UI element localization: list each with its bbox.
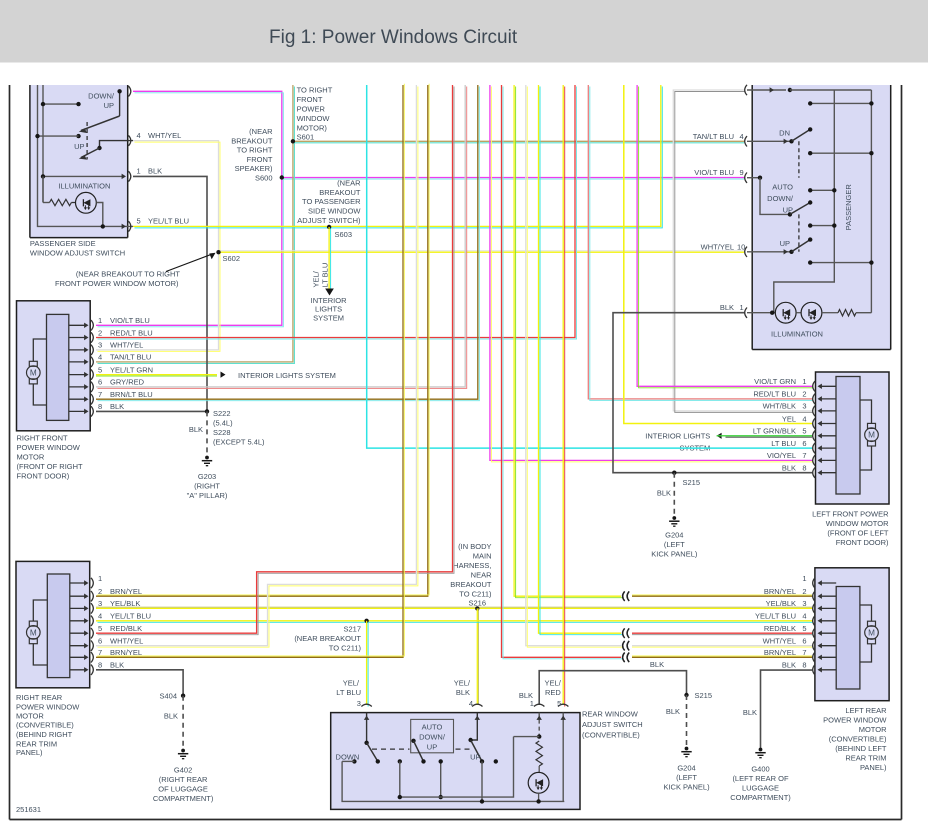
svg-text:BREAKOUT: BREAKOUT — [450, 580, 492, 589]
svg-text:LT BLU: LT BLU — [771, 439, 796, 448]
svg-text:8: 8 — [98, 661, 102, 670]
svg-text:4: 4 — [740, 132, 744, 141]
svg-text:RIGHT REAR: RIGHT REAR — [16, 693, 63, 702]
svg-text:WINDOW: WINDOW — [297, 114, 331, 123]
wire BRN/YEL: connector to LR motor pin2 — [632, 595, 812, 597]
switch SW3 AUTO switch arm — [411, 739, 415, 743]
switch SW2 illumination LED D3 — [801, 302, 822, 323]
svg-text:REAR WINDOW: REAR WINDOW — [582, 710, 639, 719]
wire YEL/BLK branch S216 down to rear switch pin4 — [476, 608, 478, 705]
svg-text:MOTOR: MOTOR — [859, 725, 887, 734]
svg-text:NEAR: NEAR — [471, 571, 492, 580]
switch SW3 mechanical link dashed 1 — [372, 748, 410, 750]
svg-text:RED: RED — [545, 688, 561, 697]
wire RED/BLK: top - RR motor pin5 — [96, 85, 453, 633]
svg-text:BLK: BLK — [456, 688, 470, 697]
switch SW3 auto down/up label box — [411, 719, 454, 752]
svg-text:(FRONT OF LEFT: (FRONT OF LEFT — [827, 529, 889, 538]
svg-text:(LEFT: (LEFT — [676, 773, 697, 782]
left rear motor M4 internals — [836, 587, 860, 690]
wire BLK dashed to G204 — [673, 473, 675, 516]
svg-text:COMPARTMENT): COMPARTMENT) — [730, 793, 791, 802]
svg-text:LEFT FRONT POWER: LEFT FRONT POWER — [812, 510, 889, 519]
ground G402 — [181, 749, 185, 753]
svg-text:3: 3 — [802, 402, 806, 411]
svg-text:PANEL): PANEL) — [860, 763, 887, 772]
switch SW2 contact row D — [810, 225, 834, 227]
svg-text:4: 4 — [98, 353, 102, 362]
svg-text:LT GRN/BLK: LT GRN/BLK — [753, 427, 796, 436]
svg-text:RIGHT FRONT: RIGHT FRONT — [17, 433, 69, 442]
wire YEL/LT BLU net: RR motor pin4 - S217 - LR motor pin4 — [96, 620, 812, 622]
svg-text:S217: S217 — [343, 624, 361, 633]
svg-text:UP: UP — [780, 239, 790, 248]
svg-text:M: M — [868, 431, 875, 440]
ground G204 left kick panel — [672, 516, 676, 520]
splice S600 — [280, 175, 284, 179]
svg-text:BLK: BLK — [666, 707, 680, 716]
svg-text:G204: G204 — [677, 764, 695, 773]
svg-text:BLK: BLK — [110, 661, 124, 670]
svg-text:BRN/YEL: BRN/YEL — [764, 587, 796, 596]
svg-text:1: 1 — [802, 574, 806, 583]
svg-text:(CONVERTIBLE): (CONVERTIBLE) — [829, 735, 887, 744]
svg-text:LUGGAGE: LUGGAGE — [742, 784, 779, 793]
wire LT BLU: top - LF motor pin6 — [367, 85, 812, 448]
svg-text:DOWN/: DOWN/ — [88, 91, 115, 100]
svg-text:8: 8 — [802, 661, 806, 670]
svg-text:3: 3 — [357, 699, 361, 708]
svg-text:UP: UP — [427, 742, 437, 751]
svg-text:VIO/LT GRN: VIO/LT GRN — [754, 377, 796, 386]
splice S222 — [205, 409, 209, 413]
svg-text:YEL/LT BLU: YEL/LT BLU — [110, 612, 151, 621]
svg-text:ILLUMINATION: ILLUMINATION — [771, 329, 823, 338]
svg-text:8: 8 — [98, 402, 102, 411]
svg-text:YEL/LT BLU: YEL/LT BLU — [755, 612, 796, 621]
diagram frame border — [9, 85, 11, 820]
svg-text:RED/BLK: RED/BLK — [764, 624, 796, 633]
svg-text:SPEAKER): SPEAKER) — [235, 164, 273, 173]
switch SW1 illumination resistor R1 — [43, 202, 50, 204]
right front power window motor M1 box — [17, 301, 91, 431]
wire BLK dashed to G402 — [182, 696, 184, 749]
svg-text:BLK: BLK — [110, 402, 124, 411]
svg-text:4: 4 — [469, 699, 473, 708]
wire YEL/LT BLU: top - inline connector - LR motor pin5 — [539, 85, 622, 633]
svg-text:(CONVERTIBLE): (CONVERTIBLE) — [16, 720, 74, 729]
passenger master switch SW2 box — [752, 85, 891, 350]
svg-text:LT BLU: LT BLU — [336, 688, 361, 697]
switch SW3 pin3 stub — [366, 713, 368, 743]
svg-text:M: M — [30, 369, 37, 378]
svg-text:DOWN/: DOWN/ — [767, 194, 794, 203]
wire WHT/YEL: top - inline connector - LR motor pin6 — [526, 85, 621, 646]
wire BLK net: passenger pin1 - S215 - LF motor pin8 — [613, 313, 812, 473]
svg-text:TO PASSENGER: TO PASSENGER — [302, 197, 361, 206]
svg-text:FRONT DOOR): FRONT DOOR) — [17, 471, 70, 480]
switch SW1 UP switch arm — [100, 141, 134, 148]
svg-text:(RIGHT: (RIGHT — [194, 482, 220, 491]
wire YEL/BLK net: RR motor pin3 - S216 - LR motor pin3 — [96, 607, 812, 609]
switch SW3 mechanical link dashed 2 — [456, 748, 471, 750]
svg-text:YEL/: YEL/ — [454, 679, 471, 688]
svg-text:POWER WINDOW: POWER WINDOW — [16, 702, 80, 711]
switch SW2 UP switch — [747, 251, 792, 253]
svg-text:AUTO: AUTO — [422, 722, 443, 731]
svg-text:INTERIOR: INTERIOR — [311, 296, 347, 305]
svg-text:LT BLU: LT BLU — [321, 263, 330, 288]
svg-text:UP: UP — [104, 101, 114, 110]
svg-text:DN: DN — [779, 128, 790, 137]
svg-text:YEL/: YEL/ — [343, 679, 360, 688]
svg-text:5: 5 — [98, 624, 102, 633]
svg-text:RED/BLK: RED/BLK — [110, 624, 142, 633]
svg-text:BRN/YEL: BRN/YEL — [764, 648, 796, 657]
svg-text:KICK PANEL): KICK PANEL) — [663, 783, 710, 792]
svg-text:RED/LT BLU: RED/LT BLU — [110, 328, 153, 337]
inline connector C211 pin5 — [623, 628, 625, 638]
wire LT GRN/BLK: interior lights arrow - LF motor pin5 — [726, 435, 813, 437]
svg-text:VIO/LT BLU: VIO/LT BLU — [694, 168, 734, 177]
svg-text:S216: S216 — [468, 599, 486, 608]
svg-text:1: 1 — [802, 377, 806, 386]
splice S601 — [291, 139, 295, 143]
wire VIO/LT GRN: top - LF motor pin1 — [637, 85, 812, 386]
svg-text:BLK: BLK — [782, 464, 796, 473]
svg-text:(RIGHT REAR: (RIGHT REAR — [159, 775, 208, 784]
svg-text:4: 4 — [137, 131, 141, 140]
svg-text:G400: G400 — [751, 765, 769, 774]
svg-text:9: 9 — [740, 168, 744, 177]
svg-text:BLK: BLK — [189, 425, 203, 434]
wire RED/LT BLU: top - LF motor pin2 — [588, 85, 812, 399]
switch SW2 DN switch — [747, 140, 792, 142]
wire VIO/LT BLU net: switch pin2 - S600 - passenger pin9 - RF motor pin1 — [96, 91, 282, 325]
svg-text:6: 6 — [802, 637, 806, 646]
wire BLK: RR motor pin8 - S404 - G402 — [96, 670, 183, 696]
svg-text:S228: S228 — [213, 428, 231, 437]
wire RED/LT BLU: top - inline connector - LR motor pin7 — [502, 85, 622, 657]
svg-text:TO RIGHT: TO RIGHT — [237, 146, 273, 155]
switch SW2 pin chevrons — [745, 85, 747, 95]
svg-text:S602: S602 — [223, 254, 241, 263]
svg-text:TO C211): TO C211) — [329, 643, 362, 652]
svg-text:10: 10 — [737, 242, 745, 251]
splice S603 — [327, 225, 331, 229]
svg-text:6: 6 — [98, 637, 102, 646]
switch SW3 pin1 stub dashed — [538, 713, 540, 737]
svg-text:FRONT POWER WINDOW MOTOR): FRONT POWER WINDOW MOTOR) — [55, 279, 179, 288]
switch SW2 illumination row pin1 — [747, 312, 775, 314]
wire TAN/LT BLU net: top - S601 - passenger pin4 - RF motor pin4 — [96, 85, 293, 362]
svg-text:Fig 1: Power Windows Circuit: Fig 1: Power Windows Circuit — [269, 27, 518, 48]
switch SW3 LED D4 — [538, 766, 540, 772]
svg-text:UP: UP — [783, 205, 793, 214]
switch SW2 mechanical link dashed upper — [798, 141, 800, 177]
svg-text:YEL/: YEL/ — [545, 679, 562, 688]
svg-text:SIDE WINDOW: SIDE WINDOW — [308, 207, 361, 216]
svg-text:(NEAR BREAKOUT: (NEAR BREAKOUT — [294, 634, 361, 643]
ground G204 lower — [685, 747, 689, 751]
svg-text:PASSENGER SIDE: PASSENGER SIDE — [30, 239, 96, 248]
svg-text:3: 3 — [802, 599, 806, 608]
svg-text:WHT/YEL: WHT/YEL — [110, 637, 143, 646]
splice S215 — [672, 471, 676, 475]
svg-text:7: 7 — [802, 648, 806, 657]
svg-text:M: M — [868, 629, 875, 638]
left front power window motor M2 box — [816, 372, 890, 504]
left rear power window motor M4 box — [815, 568, 889, 701]
right front motor M1 internals — [47, 314, 69, 420]
svg-text:7: 7 — [802, 451, 806, 460]
splice S404 — [181, 694, 185, 698]
svg-text:YEL: YEL — [782, 414, 796, 423]
svg-text:(LEFT REAR OF: (LEFT REAR OF — [732, 774, 789, 783]
svg-text:WHT/YEL: WHT/YEL — [110, 341, 143, 350]
svg-text:S601: S601 — [297, 133, 315, 142]
svg-text:S222: S222 — [213, 409, 231, 418]
svg-text:POWER: POWER — [297, 105, 326, 114]
wire BRN/YEL: connector to LR motor pin7 — [632, 656, 812, 658]
wire BLK dashed to G204 lower — [686, 695, 688, 747]
wire YEL/LT BLU branch from S603 down to interior lights arrow — [328, 227, 330, 289]
switch SW3 DOWN switch arm — [367, 743, 378, 762]
wire RED/BLK: connector to LR motor pin5 — [632, 632, 812, 634]
switch SW3 resistor R3 — [536, 741, 542, 766]
svg-text:COMPARTMENT): COMPARTMENT) — [153, 794, 214, 803]
svg-text:3: 3 — [98, 341, 102, 350]
wire BLK: switch pin1 - S222 - RF motor pin8 — [133, 176, 207, 411]
switch SW1 pin1 row — [43, 175, 124, 177]
wire WHT/YEL: connector to LR motor pin6 — [632, 645, 812, 647]
svg-text:TAN/LT BLU: TAN/LT BLU — [693, 132, 734, 141]
svg-text:(BEHIND RIGHT: (BEHIND RIGHT — [16, 730, 73, 739]
svg-text:YEL/LT GRN: YEL/LT GRN — [110, 365, 153, 374]
svg-text:MOTOR): MOTOR) — [297, 124, 328, 133]
svg-text:1: 1 — [530, 699, 534, 708]
wire WHT/YEL net: switch pin4 - S602 - passenger pin10 - RF motor pin3 — [96, 141, 219, 350]
wire BLK net: rear switch pin1 - S215 - G204 — [539, 671, 686, 705]
wire BRN/YEL: top - RR motor pin7 — [96, 85, 403, 657]
svg-text:7: 7 — [98, 390, 102, 399]
switch SW2 illumination LED D2 — [775, 302, 796, 323]
svg-text:2: 2 — [802, 390, 806, 399]
switch SW2 mid rail — [774, 90, 835, 313]
svg-text:BLK: BLK — [148, 167, 162, 176]
svg-text:7: 7 — [98, 648, 102, 657]
svg-text:DOWN/: DOWN/ — [419, 732, 446, 741]
svg-text:PASSENGER: PASSENGER — [844, 184, 853, 231]
wire WHT/YEL: top - RR motor pin6 — [96, 85, 416, 646]
svg-text:TO C211): TO C211) — [459, 590, 492, 599]
svg-text:BRN/YEL: BRN/YEL — [110, 587, 142, 596]
splice S216 — [475, 606, 479, 610]
svg-text:INTERIOR LIGHTS: INTERIOR LIGHTS — [645, 431, 710, 440]
svg-text:G402: G402 — [174, 766, 192, 775]
svg-text:(FRONT OF RIGHT: (FRONT OF RIGHT — [17, 462, 84, 471]
svg-text:6: 6 — [802, 439, 806, 448]
switch SW2 mechanical link dashed lower — [798, 214, 800, 251]
svg-text:LEFT REAR: LEFT REAR — [845, 706, 887, 715]
svg-text:"A" PILLAR): "A" PILLAR) — [187, 491, 228, 500]
svg-text:S603: S603 — [335, 230, 353, 239]
svg-text:2: 2 — [98, 587, 102, 596]
svg-text:S404: S404 — [159, 692, 177, 701]
wire YEL/RED: top - rear switch pin5 — [562, 85, 564, 705]
svg-text:2: 2 — [802, 587, 806, 596]
switch SW3 pin5 stub — [562, 713, 564, 802]
svg-text:FRONT: FRONT — [297, 95, 323, 104]
svg-text:ADJUST SWITCH): ADJUST SWITCH) — [297, 216, 361, 225]
svg-text:(NEAR BREAKOUT TO RIGHT: (NEAR BREAKOUT TO RIGHT — [76, 270, 181, 279]
svg-text:BLK: BLK — [164, 712, 178, 721]
inline connector C211 pin6 — [623, 641, 625, 651]
splice S217 — [364, 619, 368, 623]
svg-text:UP: UP — [470, 752, 480, 761]
svg-text:WHT/YEL: WHT/YEL — [701, 242, 734, 251]
svg-text:UP: UP — [74, 142, 84, 151]
switch SW2 contact row C — [810, 189, 834, 191]
switch SW2 contact row A — [810, 102, 871, 104]
right rear motor M3 internals — [47, 574, 70, 678]
svg-text:WHT/YEL: WHT/YEL — [763, 637, 796, 646]
svg-text:RED/LT BLU: RED/LT BLU — [753, 390, 796, 399]
svg-text:S215: S215 — [695, 691, 713, 700]
inline connector C211 pin2 — [623, 591, 625, 601]
svg-text:GRY/RED: GRY/RED — [110, 378, 145, 387]
wire WHT/BLK net: passenger top pin - LF motor pin3 — [673, 90, 812, 411]
svg-text:POWER WINDOW: POWER WINDOW — [823, 716, 887, 725]
switch SW2 contact row B — [810, 152, 871, 154]
svg-text:5: 5 — [98, 365, 102, 374]
inline connector C211 pin7 — [623, 653, 625, 663]
svg-text:BRN/LT BLU: BRN/LT BLU — [110, 390, 153, 399]
svg-text:LIGHTS: LIGHTS — [315, 305, 342, 314]
switch SW3 left drop wire — [342, 761, 564, 801]
svg-text:BREAKOUT: BREAKOUT — [319, 188, 361, 197]
svg-text:REAR TRIM: REAR TRIM — [845, 754, 886, 763]
svg-text:TAN/LT BLU: TAN/LT BLU — [110, 353, 151, 362]
svg-text:VIO/YEL: VIO/YEL — [767, 451, 796, 460]
svg-text:POWER WINDOW: POWER WINDOW — [17, 443, 81, 452]
svg-text:(EXCEPT 5.4L): (EXCEPT 5.4L) — [213, 438, 265, 447]
switch SW1 rail B — [42, 85, 44, 203]
svg-text:251631: 251631 — [16, 805, 41, 814]
svg-text:YEL/LT BLU: YEL/LT BLU — [148, 217, 189, 226]
svg-text:8: 8 — [802, 464, 806, 473]
svg-text:MAIN: MAIN — [473, 552, 492, 561]
wire YEL/LT GRN: top - inline connector - LR motor pin2 — [514, 85, 621, 596]
switch SW1 mechanical link dashed — [86, 122, 88, 160]
svg-text:KICK PANEL): KICK PANEL) — [651, 550, 698, 559]
switch SW2 contact row E — [810, 262, 871, 264]
svg-text:BRN/YEL: BRN/YEL — [110, 648, 142, 657]
wire BRN/LT BLU: top - RF motor pin7 — [96, 85, 478, 399]
rear window adjust switch SW3 box — [331, 713, 580, 810]
wire VIO/YEL: top - LF motor pin7 — [490, 85, 812, 460]
svg-text:4: 4 — [98, 612, 102, 621]
switch SW1 crossbar row — [43, 103, 79, 105]
wire RED/LT BLU: top - RF motor pin2 — [96, 85, 575, 338]
svg-text:MOTOR: MOTOR — [16, 711, 44, 720]
passenger side window adjust switch SW1 box — [30, 85, 128, 238]
switch SW2 top pin wire — [747, 89, 786, 91]
switch SW3 center drop wires — [399, 761, 401, 797]
svg-text:BLK: BLK — [657, 489, 671, 498]
wire GRY/RED: top - RF motor pin6 — [96, 85, 465, 387]
svg-text:S215: S215 — [683, 478, 701, 487]
svg-text:OF LUGGAGE: OF LUGGAGE — [158, 785, 208, 794]
svg-text:(IN BODY: (IN BODY — [458, 542, 491, 551]
wire YEL/LT BLU net: switch pin5 - S603 - up to top — [133, 85, 661, 226]
svg-text:MOTOR: MOTOR — [17, 452, 45, 461]
wire YEL: top - LF motor pin4 — [624, 85, 812, 424]
switch SW2 illumination resistor R2 — [838, 310, 856, 316]
svg-text:ADJUST SWITCH: ADJUST SWITCH — [582, 720, 643, 729]
svg-text:S600: S600 — [255, 173, 273, 182]
svg-text:1: 1 — [137, 167, 141, 176]
wire BLK dashed to G203 — [206, 411, 208, 456]
svg-text:BLK: BLK — [720, 303, 734, 312]
svg-text:HARNESS,: HARNESS, — [453, 561, 491, 570]
svg-text:5: 5 — [137, 217, 141, 226]
svg-text:5: 5 — [557, 699, 561, 708]
switch SW2 AUTO switch — [747, 177, 760, 179]
svg-text:5: 5 — [802, 624, 806, 633]
svg-text:FRONT DOOR): FRONT DOOR) — [836, 538, 889, 547]
svg-text:TO RIGHT: TO RIGHT — [297, 86, 333, 95]
svg-text:M: M — [30, 628, 37, 637]
svg-text:YEL/BLK: YEL/BLK — [766, 599, 796, 608]
switch SW3 pin chevrons and stubs — [361, 704, 371, 706]
svg-text:AUTO: AUTO — [772, 182, 793, 191]
svg-text:1: 1 — [740, 303, 744, 312]
svg-text:(5.4L): (5.4L) — [213, 419, 233, 428]
wire YEL/LT BLU branch S217 down to rear switch pin3 — [366, 621, 368, 705]
wire YEL/LT GRN: RF motor pin5 to interior lights arrow — [96, 374, 217, 376]
svg-text:WINDOW ADJUST SWITCH: WINDOW ADJUST SWITCH — [30, 249, 125, 258]
switch SW1 pin chevrons — [129, 86, 131, 96]
switch SW1 illumination LED D1 — [71, 202, 75, 204]
wire BLK: LR motor pin8 - G400 — [761, 670, 813, 748]
title header bar — [0, 0, 928, 63]
svg-text:BREAKOUT: BREAKOUT — [231, 136, 273, 145]
svg-text:(NEAR: (NEAR — [249, 127, 273, 136]
svg-text:2: 2 — [98, 328, 102, 337]
svg-text:6: 6 — [98, 378, 102, 387]
svg-text:G203: G203 — [198, 472, 216, 481]
svg-text:G204: G204 — [665, 531, 683, 540]
ground G400 — [759, 748, 763, 752]
svg-text:INTERIOR LIGHTS SYSTEM: INTERIOR LIGHTS SYSTEM — [238, 371, 336, 380]
ground G203 — [205, 456, 209, 460]
switch SW1 rail A — [38, 85, 134, 226]
svg-text:4: 4 — [802, 414, 806, 423]
switch SW3 pin4 stub and UP switch — [471, 713, 478, 740]
svg-text:FRONT: FRONT — [247, 155, 273, 164]
svg-text:PANEL): PANEL) — [16, 748, 43, 757]
svg-text:YEL/: YEL/ — [312, 270, 321, 287]
svg-text:BLK: BLK — [650, 660, 664, 669]
svg-text:4: 4 — [802, 612, 806, 621]
switch SW1 DOWN/UP switch arm — [119, 91, 121, 116]
svg-text:(BEHIND LEFT: (BEHIND LEFT — [835, 744, 887, 753]
svg-text:BLK: BLK — [743, 708, 757, 717]
left front motor M2 internals — [836, 377, 860, 495]
svg-text:(NEAR: (NEAR — [337, 179, 361, 188]
svg-text:1: 1 — [98, 316, 102, 325]
